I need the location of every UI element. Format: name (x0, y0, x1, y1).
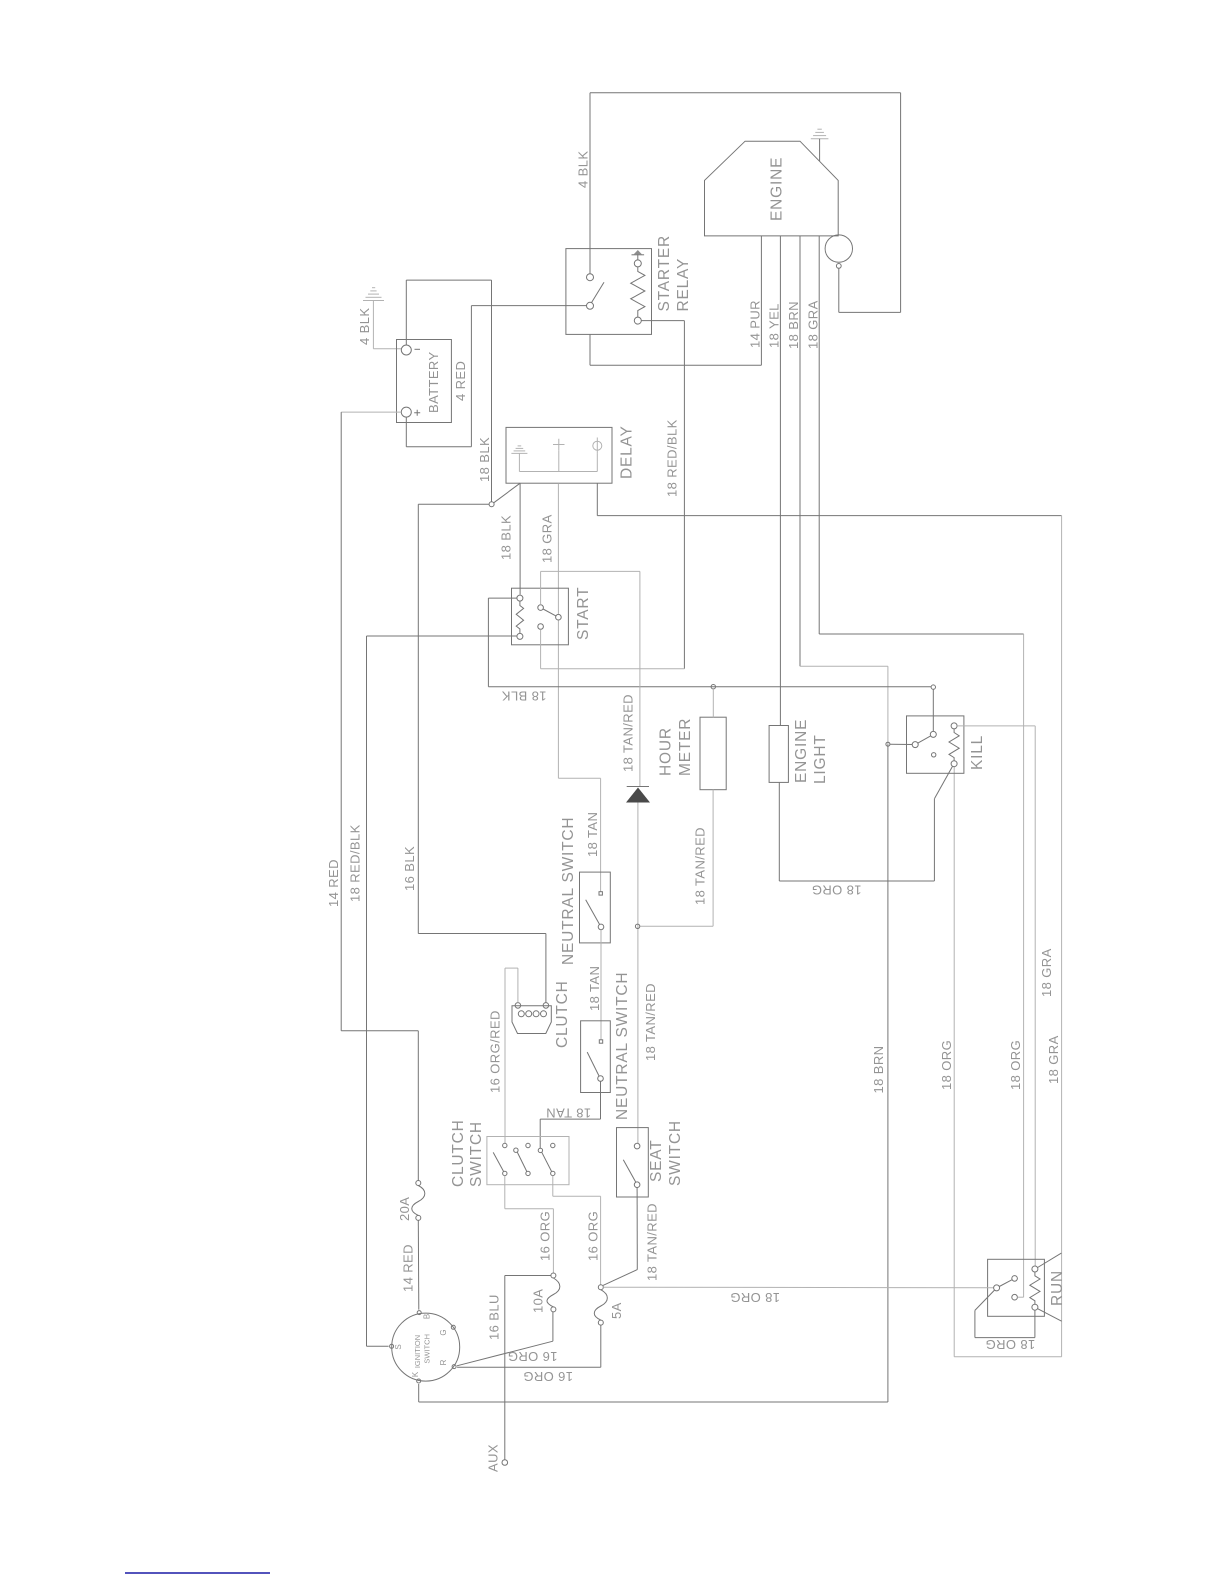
svg-text:RUN: RUN (1049, 1270, 1066, 1306)
engine block (705, 141, 839, 236)
node hour meter junction (711, 685, 715, 689)
svg-text:18 BLK: 18 BLK (499, 515, 514, 560)
battery B1 (397, 340, 452, 423)
node battery 18 BLK junction (489, 502, 494, 507)
battery terminal negative (401, 345, 411, 355)
relay coil (634, 260, 641, 267)
wire 18 BLK start resistor to kill (488, 598, 931, 687)
svg-text:R: R (439, 1359, 448, 1365)
start switch contact B (556, 614, 562, 620)
wire 16 ORG clutch switch pole 3 to 5A fuse (553, 1176, 601, 1285)
svg-text:18 ORG: 18 ORG (1008, 1040, 1023, 1090)
neutral switch 1 box (580, 872, 611, 943)
svg-text:ENGINE: ENGINE (793, 719, 810, 783)
clutch switch pole 1 blade (493, 1152, 503, 1171)
svg-text:18 TAN/RED: 18 TAN/RED (645, 1203, 660, 1281)
svg-text:SWITCH: SWITCH (468, 1121, 485, 1187)
wire 18 BLK down to kill pivot (932, 689, 934, 731)
seat switch blade (623, 1160, 636, 1183)
fuse 10A (551, 1273, 556, 1278)
wire ignition K to 18 BRN (419, 1384, 888, 1402)
wire run resistor bottom diagonal (1037, 1309, 1061, 1322)
wire 16 ORG 5A fuse to ignition R (457, 1325, 601, 1367)
svg-text:18 GRA: 18 GRA (1039, 948, 1054, 997)
clutch connector (512, 1006, 551, 1034)
clutch switch pole 3 contacts (551, 1143, 555, 1147)
battery terminal positive (401, 407, 411, 417)
svg-text:KILL: KILL (969, 735, 986, 770)
wire 18 RED/BLK start to ignition S (367, 636, 518, 1346)
svg-text:RELAY: RELAY (675, 258, 692, 312)
svg-text:16 ORG: 16 ORG (523, 1369, 573, 1384)
engine light box (769, 726, 788, 783)
wire engine ground stem (819, 139, 821, 162)
wire 18 RED/BLK delay phase pin to right side (597, 483, 1061, 515)
ignition terminal R (452, 1365, 456, 1369)
run switch blade (999, 1280, 1012, 1287)
svg-text:16 BLU: 16 BLU (487, 1294, 502, 1340)
node 18 BRN junction (886, 742, 890, 746)
svg-text:BATTERY: BATTERY (426, 351, 441, 413)
svg-text:18 ORG: 18 ORG (985, 1337, 1035, 1352)
ground (battery chassis ground) (363, 288, 384, 301)
wire 14 RED battery positive to ignition (341, 411, 401, 413)
wire 4 BLK relay to engine starter (590, 93, 901, 313)
svg-text:18 RED/BLK: 18 RED/BLK (348, 824, 363, 902)
svg-text:18 GRA: 18 GRA (540, 514, 555, 563)
neutral switch 2 blade (587, 1052, 599, 1076)
wire 14 PUR engine to relay (590, 236, 761, 365)
svg-text:IGNITION: IGNITION (413, 1335, 422, 1368)
svg-text:5A: 5A (609, 1302, 624, 1319)
svg-text:G: G (439, 1329, 448, 1335)
wire run resistor top diagonal (1038, 1253, 1062, 1267)
kill resistor (951, 723, 957, 729)
svg-text:18 GRA: 18 GRA (1046, 1035, 1061, 1084)
wire 18 RED/BLK relay coil to start switch (641, 321, 684, 669)
start switch contact C (538, 624, 544, 630)
delay phase pin (593, 438, 602, 454)
svg-text:14 PUR: 14 PUR (748, 300, 763, 348)
svg-text:18 TAN/RED: 18 TAN/RED (693, 827, 708, 905)
neutral switch 1 blade (586, 900, 600, 925)
svg-text:4 BLK: 4 BLK (357, 308, 372, 345)
kill switch box (907, 716, 964, 773)
wire start switch to relay coil (541, 629, 685, 668)
svg-text:18 TAN: 18 TAN (546, 1106, 591, 1121)
wire 18 BLK battery negative loop (406, 280, 491, 502)
wire 18 ORG run left contact loop (975, 1290, 1035, 1338)
kill switch left contact (912, 742, 918, 748)
svg-text:18 TAN: 18 TAN (587, 966, 602, 1011)
wire 18 GRA delay plus pin down through start (558, 483, 600, 892)
wire run lower middle stub (1017, 1296, 1023, 1298)
svg-text:16 ORG: 16 ORG (507, 1349, 557, 1364)
wire AUX feed (505, 1276, 551, 1460)
start resistor (517, 595, 523, 601)
connector (triangle) (627, 786, 649, 788)
ground (delay internal) (511, 446, 527, 454)
svg-text:18 BRN: 18 BRN (871, 1046, 886, 1094)
svg-text:SEAT: SEAT (648, 1139, 665, 1182)
wire 18 ORG 5A fuse to run switch (603, 1286, 993, 1289)
delay module box (506, 427, 612, 483)
clutch switch pole 1 contacts (503, 1143, 507, 1147)
svg-text:NEUTRAL SWITCH: NEUTRAL SWITCH (560, 817, 577, 965)
svg-text:S: S (394, 1344, 403, 1349)
neutral switch 1 moving contact (598, 924, 604, 930)
svg-text:18 BLK: 18 BLK (501, 689, 546, 704)
relay switch common contact (587, 302, 594, 309)
svg-text:START: START (575, 587, 592, 640)
run resistor (1032, 1266, 1038, 1272)
svg-text:16 ORG/RED: 16 ORG/RED (488, 1010, 503, 1093)
svg-text:18 ORG: 18 ORG (811, 883, 861, 898)
kill switch blade (918, 736, 931, 743)
wire 18 TAN neutral 1 to neutral 2 (600, 930, 602, 1040)
fuse 20A (416, 1181, 421, 1186)
svg-text:16 ORG: 16 ORG (586, 1211, 601, 1261)
wire 18 TAN/RED connector to seat switch (637, 803, 639, 1144)
svg-text:20A: 20A (397, 1197, 412, 1221)
neutral switch 2 box (581, 1021, 611, 1093)
wire 18 GRA engine to run switch (819, 236, 1023, 634)
wire 18 BLK delay ground to start (519, 483, 521, 594)
wire 18 TAN/RED hour meter bottom (640, 790, 713, 927)
svg-text:18 ORG: 18 ORG (939, 1040, 954, 1090)
start switch blade (543, 609, 556, 616)
clutch switch pole 3 blade (542, 1152, 552, 1171)
ground (engine) (811, 129, 829, 139)
wire 18 GRA kill resistor top to run (957, 726, 1035, 1266)
run switch box (988, 1259, 1045, 1316)
svg-text:STARTER: STARTER (656, 235, 673, 312)
wire 14 RED fuse to ignition B (417, 1220, 420, 1309)
wire 18 ORG engine light to kill (779, 767, 952, 882)
wire 4 BLK battery negative to ground (373, 301, 401, 349)
wire 18 YEL engine to engine light (779, 236, 781, 726)
svg-text:AUX: AUX (486, 1444, 501, 1472)
wire 16 ORG clutch switch pole 1 to 10A fuse (505, 1176, 554, 1273)
clutch switch pole 2 contacts (526, 1143, 530, 1147)
wire 4 RED battery positive loop to relay (406, 306, 586, 447)
svg-text:HOUR: HOUR (658, 727, 675, 776)
svg-text:16 BLK: 16 BLK (402, 846, 417, 891)
svg-text:16 ORG: 16 ORG (538, 1211, 553, 1261)
ignition switch (392, 1313, 460, 1381)
svg-text:14 RED: 14 RED (326, 859, 341, 907)
node AUX terminal (502, 1460, 508, 1466)
starter relay box (566, 249, 652, 335)
svg-text:NEUTRAL SWITCH: NEUTRAL SWITCH (614, 972, 631, 1120)
svg-text:18 GRA: 18 GRA (806, 300, 821, 349)
svg-text:18 YEL: 18 YEL (767, 303, 782, 348)
svg-text:18 ORG: 18 ORG (730, 1290, 780, 1305)
fuse 5A (598, 1285, 603, 1290)
node kill branch junction (931, 685, 935, 689)
seat switch contacts (634, 1143, 640, 1149)
wire 16 BLK junction down to clutch connector (418, 504, 546, 1002)
svg-text:18 BLK: 18 BLK (477, 437, 492, 482)
relay switch blade (592, 282, 605, 302)
delay internal bus (519, 450, 597, 471)
ignition terminal B (417, 1311, 421, 1315)
ignition terminal K (417, 1379, 421, 1383)
svg-text:METER: METER (677, 718, 694, 776)
svg-text:4 RED: 4 RED (453, 361, 468, 401)
wire 16 ORG 10A fuse to ignition R (457, 1312, 553, 1366)
neutral switch 2 fixed contact (599, 1040, 602, 1043)
svg-text:14 RED: 14 RED (401, 1244, 416, 1292)
wire 18 BLK junction to delay corner (494, 483, 520, 503)
run switch upper middle contact (1012, 1276, 1018, 1282)
svg-text:18 TAN: 18 TAN (585, 812, 600, 857)
start switch box (512, 588, 569, 645)
svg-text:SWITCH: SWITCH (423, 1334, 432, 1364)
clutch switch pole 2 blade (517, 1152, 527, 1172)
wire 18 TAN neutral 2 to clutch switch (540, 1081, 600, 1148)
clutch switch box (487, 1137, 569, 1185)
svg-text:DELAY: DELAY (619, 425, 636, 479)
ignition terminal G (451, 1325, 455, 1329)
hour meter box (700, 717, 726, 790)
node tan/red junction (635, 924, 639, 928)
run switch lower middle contact (1012, 1294, 1018, 1300)
start switch contact A (538, 605, 544, 611)
svg-text:B: B (423, 1314, 432, 1319)
kill switch floating contact (932, 753, 936, 757)
svg-text:CLUTCH: CLUTCH (450, 1119, 467, 1187)
svg-text:18 BRN: 18 BRN (786, 301, 801, 349)
svg-text:ENGINE: ENGINE (769, 157, 786, 221)
svg-text:4 BLK: 4 BLK (576, 151, 591, 188)
svg-text:18 TAN/RED: 18 TAN/RED (643, 983, 658, 1061)
svg-text:SWITCH: SWITCH (667, 1120, 684, 1186)
svg-text:LIGHT: LIGHT (812, 734, 829, 784)
page mark (blue underline) (125, 1572, 270, 1574)
svg-text:18 RED/BLK: 18 RED/BLK (665, 419, 680, 497)
seat switch box (617, 1128, 649, 1197)
ignition terminal S (390, 1344, 394, 1348)
starter motor (825, 235, 852, 262)
svg-text:18 TAN/RED: 18 TAN/RED (621, 694, 636, 772)
svg-text:CLUTCH: CLUTCH (554, 980, 571, 1048)
relay switch fixed contact (587, 274, 594, 281)
neutral switch 1 fixed contact (599, 892, 602, 895)
wire 18 BRN junction to kill left contact (890, 743, 912, 745)
wire 16 ORG/RED clutch connector to clutch switch (505, 968, 518, 1143)
delay plus pin (553, 439, 565, 451)
kill switch pivot contact (930, 731, 936, 737)
neutral switch 2 moving contact (598, 1076, 604, 1082)
svg-text:10A: 10A (531, 1289, 546, 1313)
relay coil chassis ground (632, 254, 645, 256)
svg-text:K: K (411, 1371, 420, 1377)
wire 18 BRN engine to kill and ignition (799, 236, 801, 666)
wire 18 TAN/RED seat switch to 5A fuse (603, 1188, 637, 1286)
wire hour meter top (712, 689, 714, 717)
run switch left contact (994, 1285, 1000, 1291)
wire 18 TAN/RED start switch to connector (541, 571, 640, 786)
